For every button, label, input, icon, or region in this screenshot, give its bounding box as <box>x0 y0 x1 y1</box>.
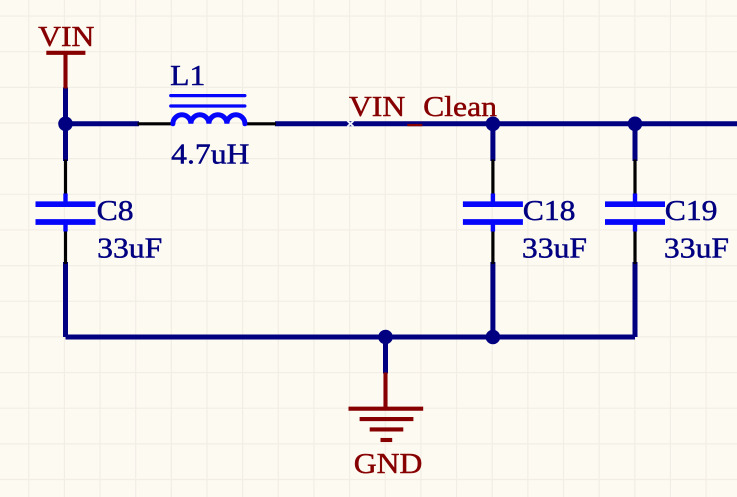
capacitor C8 plate 2 <box>36 219 96 225</box>
ground GND bar 4 <box>381 438 393 442</box>
junction dot: C19 / top rail <box>628 117 643 132</box>
wire: top rail from left junction to left inductor pin <box>66 121 140 126</box>
svg-text:33uF: 33uF <box>522 232 587 264</box>
capacitor C18 plate 1 <box>463 201 523 207</box>
junction dot: left rail / top rail <box>58 117 73 132</box>
capacitor C8 plate 1 <box>36 201 96 207</box>
junction dot: C18 / top rail <box>486 117 501 132</box>
wire: VIN stem to top rail <box>63 88 68 124</box>
svg-text:4.7uH: 4.7uH <box>171 138 249 170</box>
wire: C19 top pin to top rail <box>633 124 638 161</box>
svg-text:C19: C19 <box>665 194 718 226</box>
svg-text:C18: C18 <box>523 194 576 226</box>
wire: C8 bottom pin down to bottom rail <box>63 262 68 337</box>
junction dot: C18 / bottom rail <box>486 330 501 345</box>
wire: GND stem from bottom rail <box>383 337 388 374</box>
capacitor C19 top stub <box>633 194 637 203</box>
ground GND stem <box>383 373 387 409</box>
capacitor C18 plate 2 <box>463 219 523 225</box>
inductor L1 coil <box>173 115 245 124</box>
capacitor C18 top stub <box>491 194 495 203</box>
svg-text:33uF: 33uF <box>97 232 162 264</box>
svg-text:Clean: Clean <box>423 90 497 122</box>
ground GND bar 1 <box>349 407 424 411</box>
power port VIN bar <box>46 51 85 55</box>
inductor L1 pin 1 (black) <box>138 122 173 125</box>
svg-text:VIN: VIN <box>349 90 406 122</box>
svg-text:VIN: VIN <box>38 20 95 52</box>
capacitor C19 plate 1 <box>605 201 665 207</box>
wire: bottom rail <box>66 335 636 340</box>
junction dot: GND / bottom rail <box>378 330 393 345</box>
capacitor C19 pin 2 (black) <box>633 231 636 265</box>
capacitor C8 top stub <box>63 194 67 203</box>
capacitor C8 pin 1 (black) <box>64 160 67 196</box>
capacitor C19 plate 2 <box>605 219 665 225</box>
svg-text:L1: L1 <box>170 59 205 91</box>
wire: C18 bottom pin down to bottom rail <box>490 262 495 337</box>
inductor L1 core bar lower <box>171 104 245 107</box>
svg-text:GND: GND <box>354 447 423 479</box>
capacitor C19 bottom stub <box>633 224 637 232</box>
capacitor C18 pin 1 (black) <box>491 160 494 196</box>
power port VIN stem <box>63 53 67 89</box>
ground GND bar 3 <box>370 427 404 431</box>
svg-text:C8: C8 <box>97 194 134 226</box>
ground GND bar 2 <box>360 417 414 421</box>
inductor L1 core bar upper <box>171 94 245 97</box>
svg-text:33uF: 33uF <box>664 232 729 264</box>
wire: C19 bottom pin down to bottom rail <box>633 262 638 337</box>
inductor L1 pin 2 (black) <box>245 122 276 125</box>
capacitor C8 pin 2 (black) <box>64 231 67 265</box>
wire: top rail from right inductor pin to right edge (VIN_Clean net) <box>275 121 737 126</box>
wire: C18 top pin to top rail <box>490 124 495 161</box>
capacitor C19 pin 1 (black) <box>633 160 636 196</box>
capacitor C18 bottom stub <box>491 224 495 232</box>
capacitor C18 pin 2 (black) <box>491 231 494 265</box>
wire: left rail down to C8 top pin <box>63 124 68 161</box>
wire vertex marker (light X on wire) <box>347 121 353 127</box>
capacitor C8 bottom stub <box>63 224 67 232</box>
